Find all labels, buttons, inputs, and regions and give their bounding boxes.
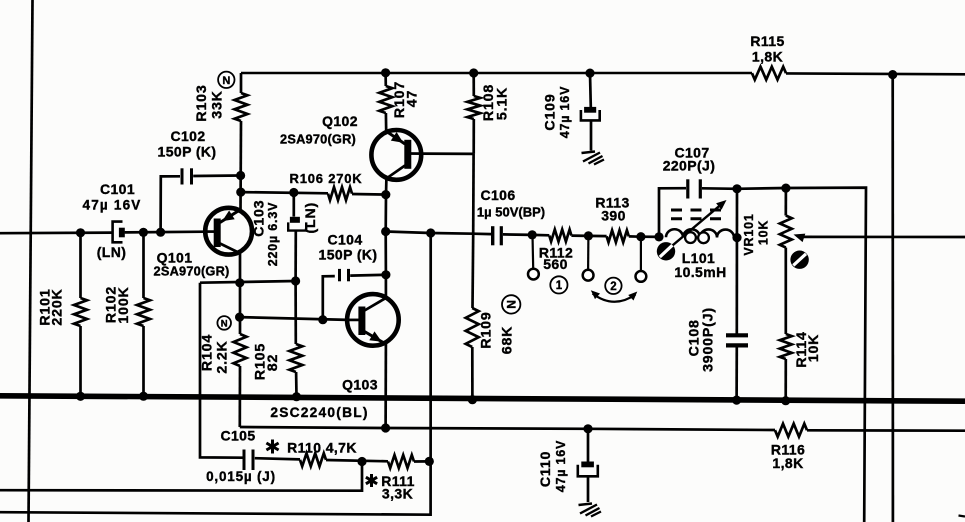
adjust mark for L101 bbox=[657, 242, 675, 260]
resistor R110 bbox=[255, 440, 388, 467]
svg-text:C102: C102 bbox=[170, 128, 205, 144]
resistor R103 bbox=[194, 73, 248, 211]
transistor Q101 bbox=[154, 208, 252, 279]
wire: R108 node down bbox=[472, 154, 475, 234]
svg-text:1: 1 bbox=[556, 280, 563, 292]
transistor Q103 bbox=[270, 294, 398, 420]
switch contact 3 bbox=[636, 271, 647, 282]
switch contact 1 bbox=[528, 269, 539, 280]
resistor R105 bbox=[253, 281, 303, 397]
capacitor C108 bbox=[686, 307, 748, 400]
svg-text:220µ 6.3V: 220µ 6.3V bbox=[266, 202, 280, 266]
svg-text:N: N bbox=[222, 75, 230, 87]
svg-text:2SA970(GR): 2SA970(GR) bbox=[280, 132, 356, 147]
resistor R116 bbox=[771, 424, 965, 471]
svg-text:(LN): (LN) bbox=[303, 202, 319, 234]
svg-text:C104: C104 bbox=[327, 232, 362, 248]
svg-text:47: 47 bbox=[405, 90, 421, 107]
capacitor C106 bbox=[477, 187, 545, 245]
svg-text:10K: 10K bbox=[806, 334, 822, 362]
switch contact stub 1 bbox=[531, 235, 534, 269]
wire: branch down to C105 bbox=[200, 283, 243, 458]
symbol: N mark for R104 bbox=[217, 316, 231, 330]
wire: Q102 collector down bbox=[384, 178, 387, 298]
svg-text:10.5mH: 10.5mH bbox=[674, 264, 726, 280]
switch position label 1 bbox=[550, 276, 567, 293]
resistor R114 bbox=[780, 331, 822, 400]
capacitor C104 bbox=[319, 232, 386, 320]
wire: Q101 emitter node line bbox=[200, 281, 296, 283]
svg-text:150P (K): 150P (K) bbox=[319, 247, 378, 263]
symbol: N mark for R103 bbox=[218, 72, 234, 88]
svg-text:R103: R103 bbox=[194, 84, 210, 121]
svg-text:C109: C109 bbox=[543, 93, 559, 130]
wire: right vertical 2 bbox=[891, 75, 894, 522]
inductor L101 bbox=[661, 200, 735, 280]
wire: main input line left bbox=[0, 231, 113, 234]
symbol: N mark for R109 bbox=[502, 295, 520, 313]
resistor R101 bbox=[38, 233, 88, 397]
potentiometer VR101 bbox=[742, 188, 792, 334]
resistor R104 bbox=[200, 334, 247, 427]
resistor R115 bbox=[750, 33, 786, 80]
svg-text:C110: C110 bbox=[538, 451, 554, 487]
svg-text:R106 270K: R106 270K bbox=[290, 171, 363, 186]
capacitor C102 bbox=[158, 128, 241, 232]
wire: Q103 base line bbox=[240, 317, 348, 320]
svg-text:82: 82 bbox=[265, 354, 281, 371]
svg-text:220K: 220K bbox=[50, 288, 66, 325]
capacitor C101 bbox=[83, 181, 142, 260]
svg-text:220P(J): 220P(J) bbox=[663, 158, 716, 174]
wire: Q102 base to R108 node bbox=[422, 152, 474, 155]
svg-text:R104: R104 bbox=[200, 334, 216, 371]
wire: bottom line to Q103 collector column bbox=[0, 234, 431, 515]
ground for C109 bbox=[582, 152, 605, 165]
svg-text:2SC2240(BL): 2SC2240(BL) bbox=[270, 405, 368, 420]
svg-text:N: N bbox=[221, 318, 228, 329]
svg-text:560: 560 bbox=[543, 256, 568, 272]
wire: Q101 lower vertical bbox=[239, 251, 242, 334]
resistor R107 bbox=[379, 73, 420, 132]
wire: feedback line bbox=[240, 427, 775, 430]
capacitor C103 bbox=[252, 193, 319, 281]
svg-text:3900P(J): 3900P(J) bbox=[700, 307, 716, 372]
svg-text:150P (K): 150P (K) bbox=[158, 144, 217, 160]
wire: top supply rail right segment bbox=[786, 72, 965, 76]
svg-text:(LN): (LN) bbox=[97, 244, 127, 260]
wire: R113 to tank bbox=[641, 235, 659, 238]
svg-text:47µ 16V: 47µ 16V bbox=[558, 86, 572, 138]
capacitor C109 bbox=[543, 73, 600, 150]
switch contact stub 3 bbox=[640, 237, 642, 271]
wire: R110 junction to lower bus bbox=[0, 462, 362, 491]
switch contact 2 bbox=[583, 270, 594, 281]
wire: mid signal line bbox=[386, 232, 491, 235]
svg-text:R115: R115 bbox=[750, 33, 784, 49]
svg-text:5.1K: 5.1K bbox=[495, 87, 511, 120]
ground for C110 bbox=[579, 504, 602, 517]
svg-text:C105: C105 bbox=[220, 428, 255, 444]
resistor R102 bbox=[104, 232, 151, 396]
wire: top supply rail left segment bbox=[241, 72, 752, 75]
wire: Q103 emitter down to feedback line bbox=[384, 342, 387, 428]
resistor R112 bbox=[532, 230, 588, 273]
wire: left vertical bus bbox=[29, 0, 33, 522]
svg-text:N: N bbox=[505, 300, 519, 309]
svg-text:0,015µ (J): 0,015µ (J) bbox=[206, 469, 276, 484]
svg-text:Q102: Q102 bbox=[322, 113, 358, 129]
wire: tank left vertical bbox=[659, 188, 686, 237]
svg-text:390: 390 bbox=[601, 208, 626, 224]
svg-text:2.2K: 2.2K bbox=[215, 340, 231, 373]
svg-text:2SA970(GR): 2SA970(GR) bbox=[154, 264, 230, 279]
switch travel arc bbox=[591, 290, 638, 301]
svg-text:33K: 33K bbox=[210, 90, 226, 118]
svg-text:1,8K: 1,8K bbox=[772, 455, 803, 471]
wire: tank node to right corner bbox=[737, 188, 866, 522]
svg-text:Q103: Q103 bbox=[342, 377, 378, 393]
wire: ground rail bbox=[0, 396, 965, 401]
capacitor C110 bbox=[538, 429, 598, 502]
stray mark bottom right bbox=[959, 516, 965, 517]
svg-text:R109: R109 bbox=[479, 311, 495, 348]
resistor R113 bbox=[589, 195, 642, 243]
capacitor C105 bbox=[206, 428, 276, 485]
svg-text:100K: 100K bbox=[116, 286, 132, 323]
capacitor C107 bbox=[663, 145, 737, 199]
svg-text:VR101: VR101 bbox=[742, 213, 756, 255]
svg-text:10K: 10K bbox=[757, 220, 771, 245]
switch contact stub 2 bbox=[587, 236, 590, 270]
svg-text:1,8K: 1,8K bbox=[752, 49, 783, 65]
switch position label 2 bbox=[605, 278, 621, 294]
svg-text:R110 4,7K: R110 4,7K bbox=[287, 440, 357, 456]
resistor R111 bbox=[366, 455, 430, 502]
svg-text:C101: C101 bbox=[100, 181, 135, 197]
transistor Q102 bbox=[280, 113, 422, 180]
resistor R108 bbox=[467, 73, 510, 154]
svg-text:1µ 50V(BP): 1µ 50V(BP) bbox=[477, 205, 545, 220]
svg-text:2: 2 bbox=[610, 281, 616, 293]
svg-text:47µ 16V: 47µ 16V bbox=[554, 440, 568, 492]
wiper arrow for VR101 bbox=[794, 234, 965, 243]
svg-text:47µ 16V: 47µ 16V bbox=[83, 198, 142, 213]
wire: tank right vertical bbox=[735, 189, 738, 335]
wire: input line C101 to Q101 base bbox=[125, 230, 206, 233]
svg-text:68K: 68K bbox=[500, 326, 516, 354]
adjust mark for VR101 bbox=[790, 251, 808, 269]
svg-text:C106: C106 bbox=[480, 187, 515, 203]
resistor R106 bbox=[241, 171, 386, 200]
svg-text:3,3K: 3,3K bbox=[382, 486, 413, 502]
resistor R109 bbox=[466, 234, 516, 400]
